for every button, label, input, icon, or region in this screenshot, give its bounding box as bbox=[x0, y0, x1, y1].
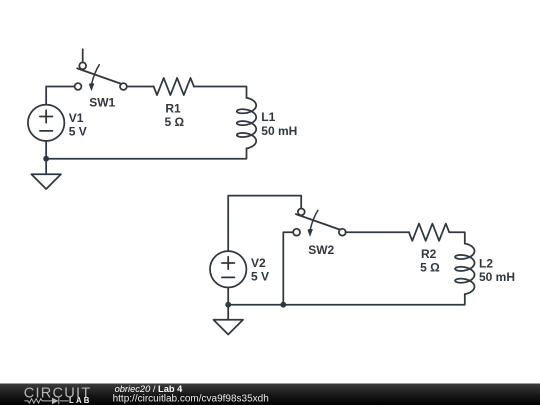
svg-text:LAB: LAB bbox=[69, 396, 92, 405]
svg-text:50 mH: 50 mH bbox=[261, 124, 297, 138]
switch SW1 open throw stub bbox=[82, 49, 84, 62]
resistor R1 zigzag bbox=[154, 78, 194, 95]
junction dot node SW2 return bbox=[280, 302, 286, 308]
ground symbol circuit 2 bbox=[214, 320, 244, 335]
wire switch SW2 right to resistor R2 bbox=[346, 231, 409, 233]
switch SW2 right terminal bbox=[339, 229, 346, 236]
wire top rail circuit 2 bbox=[228, 196, 301, 252]
svg-text:R1: R1 bbox=[165, 102, 181, 116]
junction dot node V1- / ground bbox=[43, 156, 49, 162]
switch SW1 blade bbox=[77, 68, 121, 84]
junction dot node V2- bbox=[225, 302, 231, 308]
svg-text:SW2: SW2 bbox=[308, 243, 334, 257]
switch SW2 actuation arrow bbox=[310, 210, 318, 229]
ground symbol circuit 1 bbox=[31, 174, 61, 189]
inductor L2 coil bbox=[455, 244, 474, 295]
switch SW1 actuation arrow bbox=[92, 65, 100, 84]
wire top rail circuit 1 bbox=[46, 87, 74, 105]
switch SW2 top terminal bbox=[298, 209, 305, 216]
wire resistor R2 to inductor L2 corner bbox=[449, 232, 465, 243]
wire switch SW2 left terminal to bottom rail bbox=[283, 232, 293, 305]
inductor L1 coil bbox=[237, 98, 256, 149]
switch SW1 arrow head bbox=[89, 83, 95, 91]
switch SW1 right terminal bbox=[120, 83, 127, 90]
voltage source V2 bbox=[210, 251, 246, 287]
switch SW1 left terminal bbox=[75, 83, 82, 90]
wire resistor R1 to inductor L1 corner bbox=[194, 87, 247, 98]
switch SW2 blade bbox=[296, 214, 340, 230]
svg-text:L2: L2 bbox=[479, 257, 493, 271]
switch SW1 top terminal bbox=[79, 62, 86, 69]
svg-text:V2: V2 bbox=[251, 256, 266, 270]
svg-text:R2: R2 bbox=[421, 247, 437, 261]
svg-text:5 Ω: 5 Ω bbox=[164, 115, 184, 129]
voltage source V1 bbox=[28, 105, 64, 141]
svg-text:50 mH: 50 mH bbox=[479, 270, 515, 284]
svg-text:V1: V1 bbox=[69, 111, 84, 125]
wire V1 bottom to ground bbox=[45, 141, 47, 174]
switch SW2 arrow head bbox=[307, 229, 313, 237]
wire switch SW1 right to resistor R1 bbox=[127, 86, 154, 88]
CircuitLab logo schematic glyph: resistor + diode bbox=[24, 398, 68, 405]
svg-text:5 Ω: 5 Ω bbox=[420, 261, 440, 275]
svg-text:5 V: 5 V bbox=[69, 124, 87, 138]
wire inductor L2 bottom to bottom rail bbox=[228, 294, 465, 305]
wire V2 bottom to ground bbox=[227, 288, 229, 320]
resistor R2 zigzag bbox=[409, 224, 449, 241]
svg-text:http://circuitlab.com/cva9f98s: http://circuitlab.com/cva9f98s35xdh bbox=[113, 393, 269, 404]
svg-text:SW1: SW1 bbox=[89, 96, 115, 110]
svg-text:L1: L1 bbox=[261, 110, 275, 124]
wire inductor L1 bottom to bottom rail bbox=[46, 148, 246, 158]
switch SW2 left terminal bbox=[293, 229, 300, 236]
svg-text:5 V: 5 V bbox=[251, 270, 269, 284]
